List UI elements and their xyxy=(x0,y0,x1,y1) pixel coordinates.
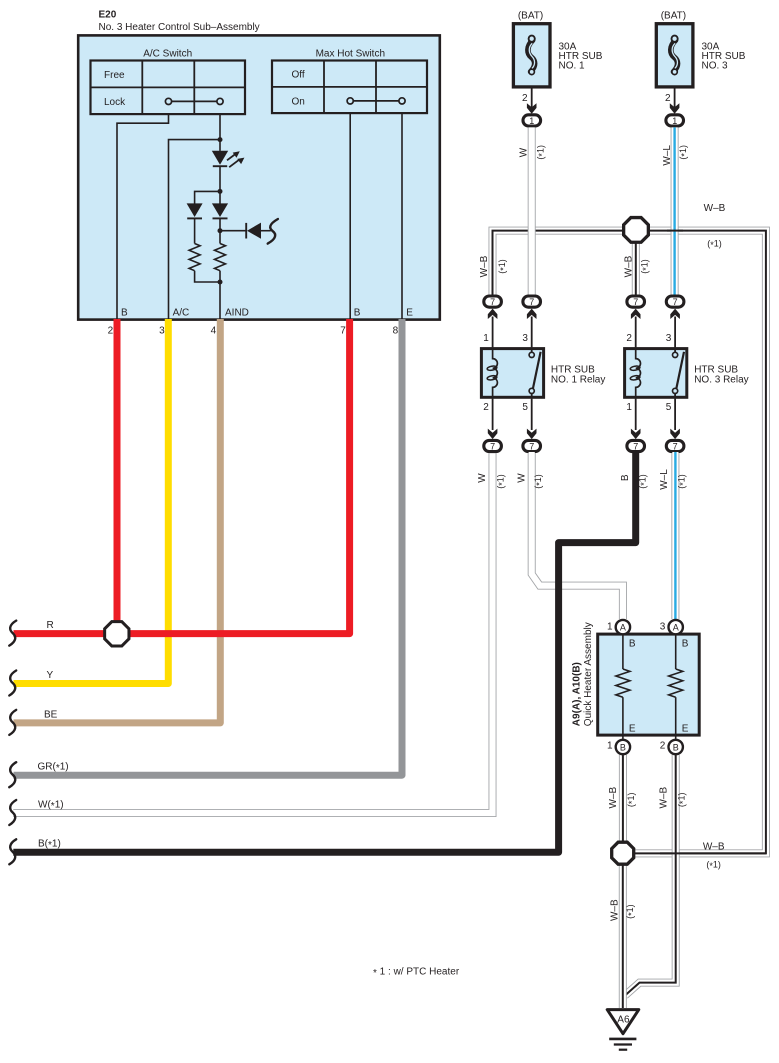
wire W-B heater B3 down with jog to ground run xyxy=(625,755,676,996)
wire W-B main loop top right bottom xyxy=(493,231,766,854)
ground symbol bars xyxy=(609,1039,636,1050)
svg-text:NO. 3: NO. 3 xyxy=(702,60,729,71)
svg-text:Lock: Lock xyxy=(104,97,126,108)
wire oval to relay1 pin3 xyxy=(531,317,533,348)
svg-text:A: A xyxy=(673,623,679,633)
svg-text:7: 7 xyxy=(340,325,346,336)
relay3 switch xyxy=(673,347,685,398)
wire resistor bottom join xyxy=(195,271,220,282)
fuse element NO.1 xyxy=(528,36,535,75)
svg-text:B: B xyxy=(673,743,679,753)
wire R red pin7 to left edge xyxy=(14,319,350,634)
svg-text:2: 2 xyxy=(522,93,528,104)
wire from A/C switch to LED xyxy=(219,113,221,151)
svg-text:1: 1 xyxy=(483,333,489,344)
wire GR gray pin8 to left edge xyxy=(14,319,403,775)
break squiggle W wire xyxy=(9,800,16,825)
svg-text:(*1): (*1) xyxy=(676,793,687,808)
wire W jog relay1 pin5 to heater A1 xyxy=(532,452,623,619)
wire B black relay3 pin1 to left edge xyxy=(13,452,635,852)
wire from A/C switch to pin 2 xyxy=(117,114,169,319)
svg-text:E: E xyxy=(629,723,636,734)
arrow up relay3 pin2 xyxy=(631,309,641,319)
arrow down relay3 pin5 xyxy=(670,429,680,440)
node junction to buzzer diode xyxy=(218,228,223,233)
svg-text:* 1 : w/ PTC Heater: * 1 : w/ PTC Heater xyxy=(373,967,460,980)
svg-text:E: E xyxy=(406,307,413,318)
fuse HTR SUB NO.1 box xyxy=(513,24,550,87)
connector oval 1 fuse3 xyxy=(666,115,684,126)
svg-text:GR(*1): GR(*1) xyxy=(38,762,69,775)
svg-text:W–B: W–B xyxy=(608,787,619,809)
svg-text:W–B: W–B xyxy=(704,203,726,214)
svg-text:(BAT): (BAT) xyxy=(661,11,686,22)
connector oval 7 bottom c2 xyxy=(523,440,541,451)
arrow into connector fuse3 xyxy=(670,103,680,114)
relay1 switch xyxy=(529,347,540,398)
svg-text:W–L: W–L xyxy=(659,469,670,490)
svg-text:(*1): (*1) xyxy=(706,860,721,871)
arrow down relay1 pin2 xyxy=(488,429,498,440)
svg-text:B(*1): B(*1) xyxy=(38,839,61,852)
arrow up relay3 pin3 xyxy=(670,309,680,319)
heater element left wire top xyxy=(622,635,624,669)
break squiggle Y wire xyxy=(9,671,16,696)
junction octagon on R wire xyxy=(105,622,129,646)
svg-text:E: E xyxy=(682,723,689,734)
svg-text:B: B xyxy=(354,307,361,318)
svg-text:(BAT): (BAT) xyxy=(518,11,543,22)
svg-text:7: 7 xyxy=(490,442,495,452)
break squiggle GR wire xyxy=(9,762,16,787)
svg-text:AIND: AIND xyxy=(225,307,249,318)
connector oval 7 bottom c1 xyxy=(484,440,502,451)
svg-text:7: 7 xyxy=(633,442,638,452)
wire branch to pin 3 xyxy=(169,140,221,319)
node junction above LED xyxy=(218,137,223,142)
heater element right wire bottom xyxy=(675,697,677,739)
wire BE beige pin4 to left edge xyxy=(14,319,221,723)
wire W-B stem from top octagon xyxy=(632,240,640,295)
svg-text:7: 7 xyxy=(633,297,638,307)
connector circle B heater pin1 xyxy=(616,740,630,754)
wire right diode to resistor xyxy=(219,218,221,243)
LED indicator xyxy=(212,151,245,167)
wire Max Hot switch to pin 7 xyxy=(349,113,351,319)
svg-text:2: 2 xyxy=(483,402,489,413)
relay HTR SUB NO.3 box xyxy=(625,349,687,398)
svg-text:NO. 1 Relay: NO. 1 Relay xyxy=(551,374,605,385)
svg-text:Y: Y xyxy=(47,670,54,681)
svg-text:(*1): (*1) xyxy=(677,474,688,489)
connector E20 No.3 Heater Control Sub-Assembly body xyxy=(78,35,440,319)
svg-text:W–B: W–B xyxy=(609,899,620,921)
wire relay3 pin1 down xyxy=(635,399,637,430)
diode left xyxy=(187,203,203,218)
svg-text:A/C: A/C xyxy=(173,307,190,318)
switch table Max Hot Switch xyxy=(272,61,427,114)
svg-text:No. 3 Heater Control Sub–Assem: No. 3 Heater Control Sub–Assembly xyxy=(99,22,260,33)
svg-text:A9(A), A10(B): A9(A), A10(B) xyxy=(572,662,583,726)
svg-text:NO. 3 Relay: NO. 3 Relay xyxy=(694,374,748,385)
svg-text:7: 7 xyxy=(490,297,495,307)
wire W from fuse1 down xyxy=(528,127,536,294)
relay1 coil xyxy=(493,347,498,398)
heater element left wire bottom xyxy=(622,697,624,739)
relay HTR SUB NO.1 box xyxy=(481,349,543,398)
node junction bottom xyxy=(218,280,223,285)
svg-text:W: W xyxy=(519,147,530,157)
wire oval to relay3 pin3 xyxy=(674,317,676,348)
connector oval 7 top c3 xyxy=(627,296,645,307)
svg-text:On: On xyxy=(292,96,305,107)
svg-text:B: B xyxy=(682,639,689,650)
svg-text:A/C Switch: A/C Switch xyxy=(143,48,192,59)
svg-text:5: 5 xyxy=(522,402,528,413)
svg-text:A6: A6 xyxy=(617,1014,630,1025)
wire to pin 4 xyxy=(219,271,221,319)
wire fuse1 output stub xyxy=(531,88,533,107)
svg-text:5: 5 xyxy=(666,402,672,413)
svg-text:7: 7 xyxy=(673,297,678,307)
svg-text:1: 1 xyxy=(607,621,613,632)
fuse HTR SUB NO.3 box xyxy=(656,24,693,87)
svg-text:(*1): (*1) xyxy=(678,145,689,160)
connector oval 7 top c4 xyxy=(666,296,684,307)
svg-text:(*1): (*1) xyxy=(533,474,544,489)
wire left diode to resistor xyxy=(194,218,196,243)
arrow down relay3 pin1 xyxy=(631,429,641,440)
wire LED to junction xyxy=(219,166,221,203)
svg-text:3: 3 xyxy=(666,333,672,344)
svg-text:W–L: W–L xyxy=(662,145,673,166)
svg-text:R: R xyxy=(47,620,54,631)
svg-text:2: 2 xyxy=(665,93,671,104)
svg-text:(*1): (*1) xyxy=(707,239,722,250)
wire Max Hot switch to pin 8 xyxy=(401,113,403,319)
resistor left xyxy=(189,244,200,271)
fuse element NO.3 xyxy=(671,36,678,75)
svg-text:3: 3 xyxy=(660,621,666,632)
svg-text:(*1): (*1) xyxy=(625,904,636,919)
svg-text:8: 8 xyxy=(393,325,399,336)
svg-text:Free: Free xyxy=(104,70,125,81)
arrow up relay1 pin3 xyxy=(527,309,537,319)
svg-text:2: 2 xyxy=(626,333,632,344)
wire W-L relay3 pin5 to heater A3 xyxy=(671,452,679,619)
resistor right xyxy=(215,244,226,271)
svg-text:(*1): (*1) xyxy=(626,793,637,808)
junction octagon W-B bottom xyxy=(612,842,634,864)
junction octagon W-B top xyxy=(624,218,649,243)
svg-text:Off: Off xyxy=(292,70,305,81)
wire W white from relay to left edge xyxy=(13,452,492,813)
connector circle B heater pin2 xyxy=(669,740,683,754)
heater element right wire top xyxy=(675,635,677,669)
connector oval 7 bottom c4 xyxy=(666,440,684,451)
svg-text:W–B: W–B xyxy=(658,787,669,809)
connector circle A heater pin1 xyxy=(616,620,630,634)
ground triangle A6 xyxy=(607,1010,639,1034)
break squiggle BE wire xyxy=(9,710,16,735)
arrow down relay1 pin5 xyxy=(527,429,537,440)
connector oval 7 top c1 xyxy=(484,296,502,307)
svg-text:1: 1 xyxy=(626,402,632,413)
svg-text:W: W xyxy=(477,473,488,483)
svg-text:W–B: W–B xyxy=(479,255,490,277)
wire branch to left diode xyxy=(195,191,220,203)
wire oval to relay1 pin1 xyxy=(492,317,494,348)
svg-text:(*1): (*1) xyxy=(638,474,649,489)
svg-text:7: 7 xyxy=(673,442,678,452)
svg-text:3: 3 xyxy=(522,333,528,344)
svg-text:3: 3 xyxy=(159,325,165,336)
wire relay3 pin5 down xyxy=(674,399,676,430)
svg-text:(*1): (*1) xyxy=(496,474,507,489)
connector oval 1 fuse1 xyxy=(523,115,541,126)
wire W-B octagon to ground xyxy=(619,862,627,1008)
svg-text:W–B: W–B xyxy=(623,255,634,277)
contact Max Hot switch On row xyxy=(347,98,405,104)
break squiggle R wire xyxy=(9,621,16,646)
diode right xyxy=(212,203,228,218)
svg-text:B: B xyxy=(620,474,631,481)
diode with continuation squiggle xyxy=(246,219,278,244)
svg-text:(*1): (*1) xyxy=(497,259,508,274)
wire Y yellow pin3 to left edge xyxy=(14,319,169,684)
svg-text:7: 7 xyxy=(529,442,534,452)
relay3 coil xyxy=(636,347,641,398)
wire to buzzer diode xyxy=(220,230,246,232)
svg-text:4: 4 xyxy=(211,325,217,336)
svg-text:1: 1 xyxy=(607,741,613,752)
wire relay1 pin5 down xyxy=(531,399,533,430)
redraw W-B bottom horizontal center over crossing xyxy=(660,852,766,854)
svg-text:B: B xyxy=(620,743,626,753)
svg-text:W–B: W–B xyxy=(703,842,725,853)
connector oval 7 top c2 xyxy=(523,296,541,307)
svg-text:7: 7 xyxy=(529,297,534,307)
svg-text:W(*1): W(*1) xyxy=(38,800,64,813)
heater resistor right xyxy=(669,669,683,697)
svg-text:B: B xyxy=(121,307,128,318)
wire oval to relay3 pin2 xyxy=(635,317,637,348)
svg-text:(*1): (*1) xyxy=(536,145,547,160)
svg-text:NO. 1: NO. 1 xyxy=(559,60,586,71)
svg-text:BE: BE xyxy=(44,709,58,720)
connector circle A heater pin3 xyxy=(669,620,683,634)
break squiggle B wire xyxy=(9,839,16,864)
wire relay1 pin2 down xyxy=(492,399,494,430)
wire fuse3 output stub xyxy=(674,88,676,107)
svg-text:1: 1 xyxy=(529,116,534,126)
switch table A/C Switch xyxy=(91,61,246,115)
svg-text:A: A xyxy=(620,623,626,633)
svg-text:E20: E20 xyxy=(99,10,117,21)
contact A/C switch Lock row xyxy=(165,98,223,104)
wire W-B heater B1 down to octagon xyxy=(619,755,627,845)
heater resistor left xyxy=(616,669,630,697)
arrow into connector fuse1 xyxy=(527,103,537,114)
svg-text:Quick Heater Assembly: Quick Heater Assembly xyxy=(583,622,594,726)
wire R red pin2 to junction xyxy=(114,319,121,634)
wire W-B top horizontal redraw over W-L crossing xyxy=(667,230,683,232)
node junction above diodes xyxy=(218,189,223,194)
wire W-L from fuse3 down xyxy=(671,127,679,294)
quick heater assembly box xyxy=(598,634,700,735)
svg-text:W: W xyxy=(516,473,527,483)
svg-text:1: 1 xyxy=(672,116,677,126)
svg-text:(*1): (*1) xyxy=(639,259,650,274)
connector oval 7 bottom c3 xyxy=(627,440,645,451)
svg-text:B: B xyxy=(629,639,636,650)
svg-text:Max Hot Switch: Max Hot Switch xyxy=(316,48,385,59)
svg-text:2: 2 xyxy=(108,325,114,336)
svg-text:2: 2 xyxy=(660,741,666,752)
arrow up relay1 pin1 xyxy=(488,309,498,319)
